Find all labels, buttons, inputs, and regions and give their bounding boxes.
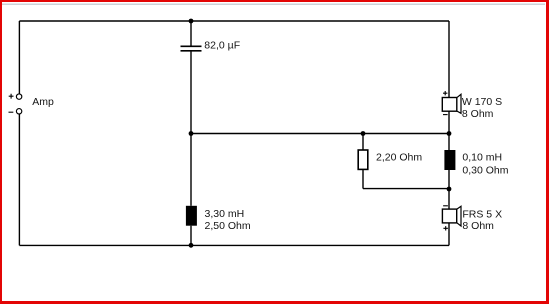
wire right branch from middle wire down to inductor L1 [448,134,450,151]
resistor R1 2,20 Ohm body [358,150,368,169]
svg-text:8 Ohm: 8 Ohm [462,108,494,120]
wire right branch from node down to speaker FRS 5 X [448,189,450,210]
speaker FRS 5 X cone [457,206,461,226]
svg-text:2,50 Ohm: 2,50 Ohm [205,220,251,232]
wire right branch from inductor L1 down to node [448,170,450,189]
svg-text:W 170 S: W 170 S [462,96,502,108]
wire right branch from top wire down to speaker W 170 S [448,21,450,97]
wire resistor lower lead [362,169,364,188]
svg-text:8 Ohm: 8 Ohm [462,220,494,232]
speaker W 170 S + sign [443,91,447,95]
node junction dot right branch at resistor return wire [447,187,452,192]
svg-text:3,30 mH: 3,30 mH [205,208,245,220]
speaker FRS 5 X - sign [443,205,448,207]
node junction dot right branch at middle wire [447,131,452,136]
wire right branch from speaker FRS 5 X down to bottom wire [448,223,450,246]
node junction dot resistor branch at middle wire [361,131,366,136]
svg-text:2,20 Ohm: 2,20 Ohm [376,151,422,163]
svg-text:82,0 µF: 82,0 µF [204,40,240,52]
wire top horizontal from Amp + to right branch [19,20,449,22]
wire right branch from speaker W 170 S down to middle wire [448,111,450,133]
speaker FRS 5 X box [442,209,456,223]
inductor L1 0,10 mH body [444,150,455,170]
node junction dot left branch at bottom wire [189,243,194,248]
wire bottom horizontal from Amp - to right branch [19,244,449,246]
svg-text:0,30 Ohm: 0,30 Ohm [462,165,508,177]
svg-text:Amp: Amp [32,96,54,108]
wire horizontal from resistor bottom to right branch [363,188,449,190]
wire left branch from middle wire down to inductor L2 [190,134,192,206]
svg-text:0,10 mH: 0,10 mH [462,151,502,163]
speaker W 170 S box [442,98,457,112]
wire capacitor branch upper lead [190,21,192,46]
Amp - sign [9,111,14,113]
speaker W 170 S cone [457,94,461,113]
wire left vertical from top wire down to Amp + terminal [18,21,20,94]
node junction dot capacitor branch at middle wire [189,131,194,136]
node junction dot top of capacitor branch [189,19,194,24]
capacitor C1 82,0 uF plates [181,46,202,51]
wire middle horizontal [191,133,449,135]
Amp + sign [9,94,14,99]
svg-text:FRS 5 X: FRS 5 X [462,208,502,220]
speaker W 170 S - sign [443,114,448,116]
wire from inductor L2 down to bottom wire [190,226,192,246]
inductor L2 3,30 mH body [186,206,197,226]
wire capacitor branch lower lead down to middle wire [190,51,192,134]
wire left vertical from Amp - terminal down to bottom wire [18,114,20,245]
wire resistor upper lead [362,134,364,151]
Amp + terminal circle [16,94,21,99]
Amp - terminal circle [16,109,21,114]
speaker FRS 5 X + sign [443,226,448,230]
